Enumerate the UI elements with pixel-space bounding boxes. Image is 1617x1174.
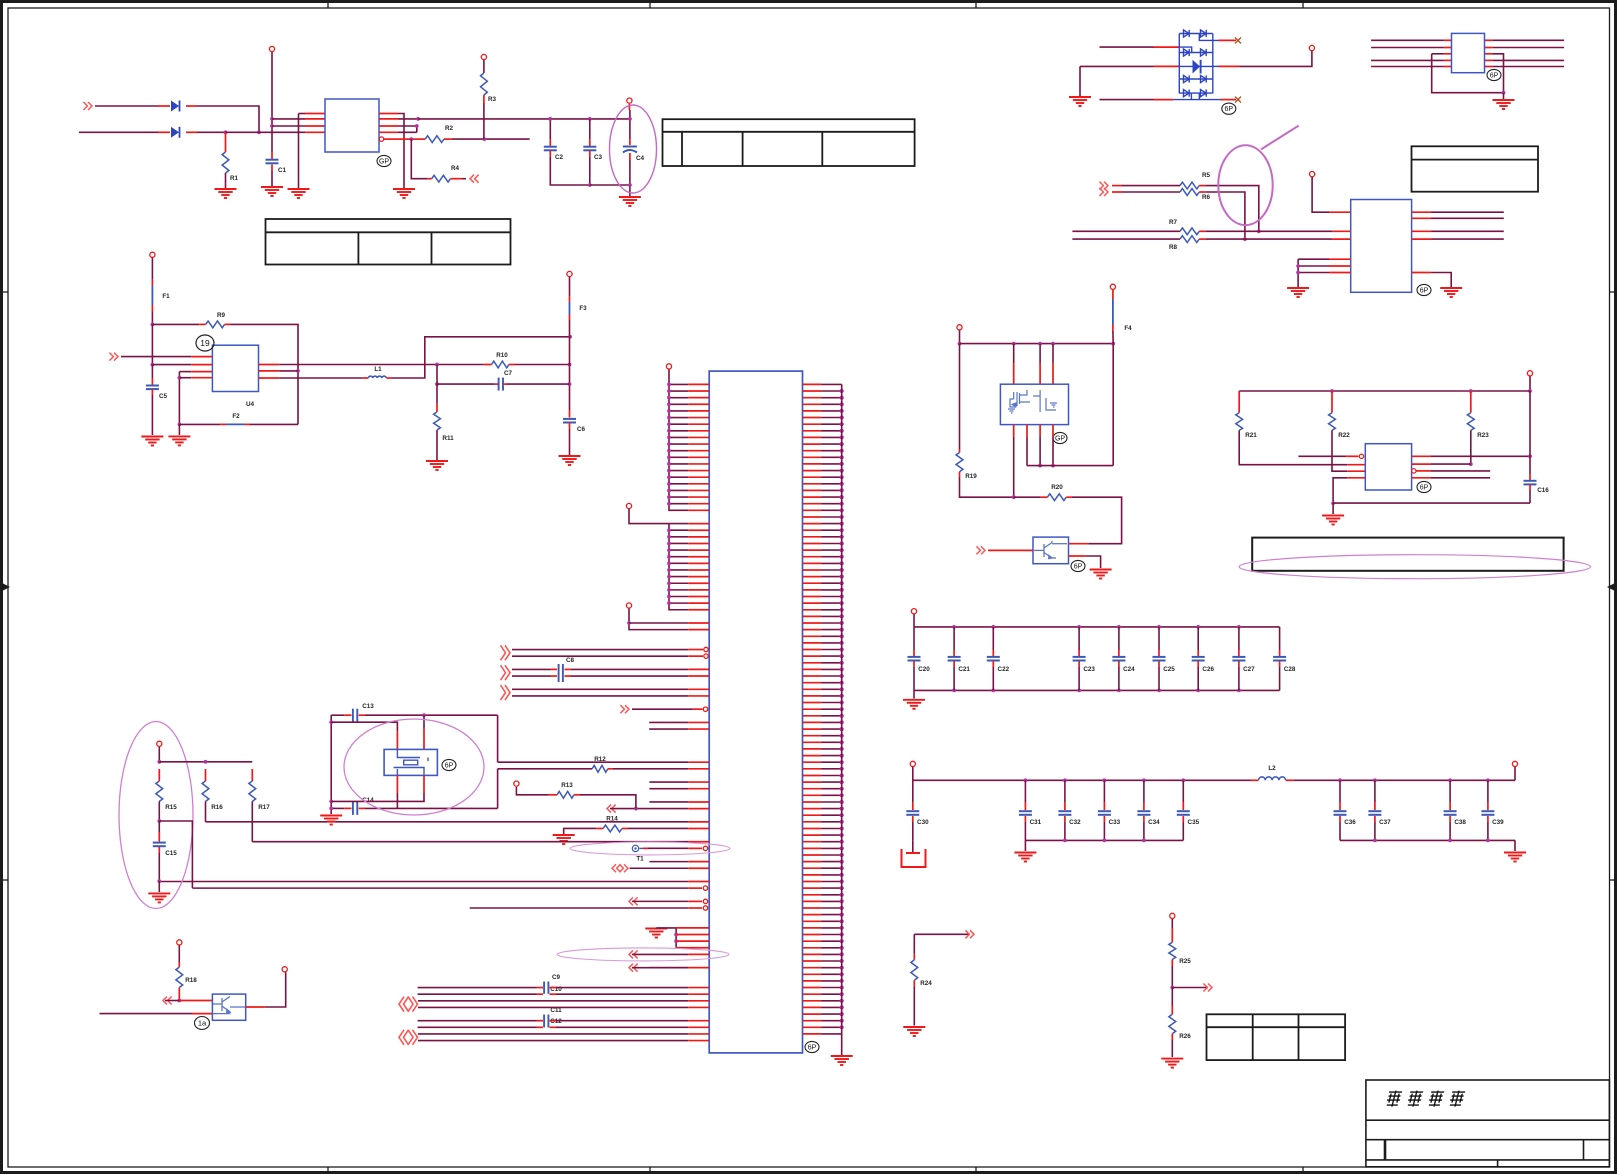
wire U2 left bus 3 [1371, 59, 1444, 61]
wire Q1 base [165, 1000, 179, 1002]
pin stub bank2 cap7 t [1374, 802, 1376, 810]
pin stub R2 lead [413, 138, 425, 140]
wire U4 out3 [279, 377, 363, 379]
junction cluster row84 [674, 939, 678, 943]
wire J1 row97 b [556, 1026, 688, 1028]
highlight ellipse row86 [557, 948, 729, 961]
junction rail R23 [1469, 389, 1473, 393]
pin stub C3 top [589, 139, 591, 147]
table top-middle frame [663, 119, 915, 166]
junction bank1 top 7 [1237, 625, 1241, 629]
wire J1 row78 [632, 900, 688, 902]
wire bank2 cap8 top lead [1449, 780, 1451, 802]
title block frame [1366, 1080, 1610, 1167]
wire J1 row66 long row66 [206, 821, 689, 823]
pin stub J1 left row0 [688, 383, 709, 385]
pin stub C14 right [359, 807, 365, 809]
pin stub bank1 cap5 b [1158, 661, 1160, 667]
table top-right frame [1412, 146, 1539, 191]
capacitor C24 bank1 [1112, 657, 1125, 661]
highlight ellipse left block [119, 722, 193, 909]
wire J1 groupA row11 [669, 456, 688, 458]
pin stub F3 bottom [569, 315, 571, 321]
resistor R16 [202, 781, 209, 801]
wire xtal bottom a [331, 807, 344, 809]
pin stub U1 out1 [379, 113, 398, 115]
wire Y1 top-right lead [423, 715, 425, 728]
wire J1 row75 long row75 [159, 881, 688, 883]
ground U2 [1493, 100, 1515, 109]
wire node to R26 [1171, 988, 1173, 1006]
pin stub U2 left 3 [1444, 59, 1452, 61]
junction bank1 bot 7 [1237, 689, 1241, 693]
ground row67 [553, 835, 575, 844]
bus arrow rows46-47 [501, 685, 511, 700]
junction bank2 top 3 [1103, 778, 1107, 782]
junction groupB row31 [667, 588, 671, 592]
junction bank1 bot 6 [1196, 689, 1200, 693]
wire node G to C15 [158, 821, 160, 832]
svg-text:C37: C37 [1379, 819, 1391, 826]
pin stub R14 left [596, 827, 603, 829]
wire bank2 cap4 bot lead [1143, 822, 1145, 840]
wire R25 to node [1171, 966, 1173, 988]
capacitor C14 series [353, 802, 357, 815]
pin stub Q2 pin3 top [1052, 363, 1054, 384]
wire J1 groupA row16 [669, 489, 688, 491]
port arrow Q1 in [163, 997, 172, 1005]
pin stub C2 top [549, 139, 551, 147]
port arrow row64 [607, 805, 616, 813]
junction R1 top [224, 130, 228, 134]
wire J1 groupB row33 [669, 602, 688, 604]
wire bank1 cap4 bot lead [1118, 667, 1120, 690]
wire bank1 top rail [914, 626, 1280, 628]
pin stub J1 left row1 [688, 390, 709, 392]
pin VREF [481, 54, 486, 59]
pin stub R17 top [251, 769, 253, 781]
wire VDD4 lead [1529, 376, 1531, 391]
pin stub C6 bottom [569, 423, 571, 429]
junction U4 pin4 node [178, 376, 182, 380]
pin stub J1 left row30 [688, 582, 709, 584]
designator stamp Q2 [1053, 432, 1067, 443]
wire R2 to node B [452, 138, 530, 140]
pin stub J1 left row73 [688, 867, 709, 869]
wire xtal bottom b [365, 807, 498, 809]
pin stub U4 out3 [259, 377, 280, 379]
junction bank1 top 1 [952, 625, 956, 629]
table top-left frame [266, 219, 511, 265]
pin stub array in2 [1154, 65, 1180, 67]
open pin circle row79 [703, 906, 707, 910]
wire C15 to node H [158, 853, 160, 881]
svg-text:C35: C35 [1188, 819, 1200, 826]
capacitor C7 series [499, 378, 503, 391]
pin stub U2 left 4 [1444, 66, 1452, 68]
port arrow row49 [620, 705, 629, 713]
pin stub C13 right [359, 714, 365, 716]
wire NET1 to R5 [1122, 185, 1180, 187]
port arrow row89 [629, 964, 638, 972]
junction bank1 bot 3 [1077, 689, 1081, 693]
pin stub J1 left row70 [688, 847, 702, 849]
junction groupB row32 [667, 595, 671, 599]
junction groupA row5 [667, 416, 671, 420]
capacitor C37 bank2 [1368, 811, 1381, 815]
wire U5 out3 [1431, 470, 1490, 472]
pin stub J1 left row60 [688, 781, 709, 783]
wire J1 groupA row7 [669, 430, 688, 432]
open pin circle row70 [703, 846, 707, 850]
wire group-B bus [669, 524, 688, 610]
pin stub R4 right [451, 178, 463, 180]
resistor R3 [481, 73, 488, 95]
bus arrow rows98-99 right [408, 1030, 418, 1045]
ic U4 [212, 345, 258, 391]
svg-text:R11: R11 [442, 435, 454, 442]
junction bank2 botB 1488 [1486, 839, 1490, 843]
svg-text:U4: U4 [246, 401, 255, 408]
wire divider rail [159, 761, 252, 763]
wire J1 groupB row29 [669, 576, 688, 578]
junction rail g3 [1051, 342, 1055, 346]
pin stub C4 bottom [629, 153, 631, 160]
ground below C6 [559, 456, 581, 465]
svg-text:F4: F4 [1124, 325, 1132, 332]
wire bank1 cap2 top lead [992, 627, 994, 650]
pin fuse F4 top [1110, 284, 1115, 289]
svg-text:C16: C16 [1537, 487, 1549, 494]
ground below C4 [619, 197, 641, 206]
junction rail R16 [204, 760, 208, 764]
designator stamp D3 [1222, 103, 1236, 114]
wire F4 to rail [1112, 331, 1114, 344]
pin stub Q2 pin1 top [1013, 363, 1015, 384]
svg-text:C6: C6 [577, 426, 586, 433]
pin stub R19 bottom [959, 472, 961, 477]
wire bank1 cap5 bot lead [1158, 667, 1160, 690]
junction node C [151, 323, 155, 327]
wire J1 groupA row17 [669, 496, 688, 498]
pin Q1 pull-up [177, 940, 182, 945]
pin stub Q2 pin2 bot [1039, 425, 1041, 437]
junction bank2 top 9 [1486, 778, 1490, 782]
wire R16 leg [205, 801, 207, 821]
svg-text:R3: R3 [488, 96, 497, 103]
pin stub U2 left 1 [1444, 39, 1452, 41]
wire J1 short row72 [649, 861, 688, 863]
pin J1 group-A supply [666, 364, 671, 369]
wire U4 out2 [279, 370, 298, 372]
wire bank2 cap3 top lead [1103, 780, 1105, 802]
capacitor C21 bank1 [948, 657, 961, 661]
wire R15 to node G [158, 801, 160, 821]
wire U2 right bus 4 [1492, 66, 1564, 68]
junction bank1 bot 1 [952, 689, 956, 693]
capacitor C28 bank1 [1273, 657, 1286, 661]
pin stub J1 left row25 [688, 549, 709, 551]
wire U3 bl 2 [1298, 265, 1329, 267]
open pin circle row41 [704, 654, 708, 658]
junction bank2 bot 1104 [1103, 839, 1107, 843]
pin stub bank2 cap4 b [1143, 816, 1145, 822]
ground left of U1 [288, 189, 310, 198]
pin stub bank1 cap6 t [1197, 650, 1199, 656]
wire bank1 cap1 top lead [953, 627, 955, 650]
resistor R10 [492, 361, 509, 368]
wire R4 to port [462, 178, 466, 180]
wire U2 right bus 3 [1492, 59, 1564, 61]
pin stub J1 left row43 [688, 668, 709, 670]
wire bank1 cap6 bot lead [1197, 667, 1199, 690]
wire bank2 cap0 top lead [912, 780, 914, 802]
pin stub D1 cathode [186, 105, 197, 107]
regulator U1 [325, 99, 379, 152]
pin stub Q1 emitter [192, 1013, 212, 1015]
junction divider node [1170, 986, 1174, 990]
wire J1 groupA row1 [669, 390, 688, 392]
pin stub bank2 cap8 b [1449, 816, 1451, 822]
svg-text:19: 19 [200, 338, 210, 348]
wire TP1 lead [640, 847, 644, 849]
wire bottom link left [179, 423, 220, 425]
pin stub U4 pin3 [191, 371, 212, 373]
pin stub J1 left row89 [688, 967, 709, 969]
junction xtal left1 [329, 720, 333, 724]
open pin circle row78 [703, 899, 707, 903]
pin stub J1 left row3 [688, 403, 709, 405]
pin stub U3 bl 1 [1329, 258, 1351, 260]
pin stub J1 left row36 [688, 622, 709, 624]
transistor Q3 inner symbol [1034, 541, 1067, 559]
wire J1 groupA row14 [669, 476, 688, 478]
junction node G [157, 819, 161, 823]
wire bank2 rail left [913, 779, 1251, 781]
svg-text:C26: C26 [1202, 666, 1214, 673]
junction U4 pin2 node [151, 363, 155, 367]
capacitor C5 [146, 386, 159, 390]
wire out1 to ground [398, 114, 404, 189]
pin stub R15 top [158, 769, 160, 781]
wire mosfet right leg [1112, 344, 1114, 466]
pin stub bank1 cap1 b [953, 661, 955, 667]
wire C1 to ground [271, 171, 273, 186]
pin stub J1 left row13 [688, 470, 709, 472]
pin stub bank2 cap4 t [1143, 802, 1145, 810]
wire bank2 cap9 top lead [1487, 780, 1489, 802]
junction R5/bus3 [1257, 229, 1261, 233]
port arrow row86 [629, 950, 638, 958]
pin stub D2 cathode [186, 131, 197, 133]
wire J1 row46 [512, 688, 688, 690]
wire bank1 feed [913, 614, 915, 627]
junction xtal left3 [329, 807, 333, 811]
wire bank2 bottom rail B [1340, 839, 1515, 841]
wire bank2 cap1 top lead [1024, 780, 1026, 802]
pin stub bank2 cap5 t [1182, 802, 1184, 810]
pin stub U5 out3 [1416, 470, 1431, 472]
pin stub U5 in2 [1347, 464, 1365, 466]
wire U5 gnd stem [1332, 503, 1334, 514]
junction VCC1/pin2 [270, 117, 274, 121]
pin row64 feed [514, 781, 519, 786]
svg-text:C13: C13 [362, 703, 374, 710]
pin stub bank1 cap0 t [913, 650, 915, 656]
resistor R8 [1180, 236, 1199, 243]
junction groupB row26 [667, 555, 671, 559]
capacitor C16 [1524, 481, 1537, 485]
pin stub TP1 [643, 847, 648, 849]
pin stub C15 bottom [158, 847, 160, 853]
pin stub bank1 cap4 t [1118, 650, 1120, 656]
bus arrow rows40-41 [501, 645, 511, 660]
junction mosfet feed [958, 342, 962, 346]
ground bank1 [903, 700, 925, 709]
svg-text:C31: C31 [1030, 819, 1042, 826]
resistor R24 [911, 960, 918, 981]
wire bank1 cap8 bot lead [1279, 667, 1281, 690]
svg-text:R9: R9 [217, 312, 226, 319]
wire R24 drop [913, 934, 915, 953]
ground U3 right [1440, 288, 1462, 297]
pin stub bank1 cap8 t [1279, 650, 1281, 656]
pin stub J1 left row14 [688, 476, 709, 478]
svg-text:C38: C38 [1454, 819, 1466, 826]
wire J1 row86 [632, 953, 688, 955]
junction groupA row16 [667, 489, 671, 493]
wire bank2 gnd stem A [1024, 840, 1026, 851]
port arrow NET2 [1099, 188, 1108, 196]
inverting pin bubble U1 pin5 [379, 137, 383, 141]
junction groupA row4 [667, 409, 671, 413]
wire J1 row44 b [571, 675, 688, 677]
wire pull-up rail [1239, 390, 1530, 392]
junction groupB row23 [667, 535, 671, 539]
junction bank1 top 4 [1117, 625, 1121, 629]
wire xtal loop left [330, 715, 332, 814]
wire bank1 cap7 bot lead [1238, 667, 1240, 690]
wire Q2 pin1 bottom [1013, 437, 1015, 497]
wire bank2 cap1 bot lead [1024, 822, 1026, 840]
wire J1 row92 b [556, 993, 688, 995]
junction rail g2 [1038, 342, 1042, 346]
junction bank2 top 8 [1448, 778, 1452, 782]
pin stub bank2 cap3 b [1103, 816, 1105, 822]
wire Q1 emitter row [100, 1013, 193, 1015]
junction xtal left2 [329, 800, 333, 804]
wire bus to ground [841, 1034, 843, 1055]
pin stub U3 br [1412, 272, 1432, 274]
wire node C to R9 [152, 323, 199, 325]
wire VCC1 vertical [271, 52, 273, 152]
junction groupA row3 [667, 402, 671, 406]
crystal Y1 [384, 749, 437, 775]
pin stub J1 left row96 [688, 1020, 709, 1022]
pin stub J1 left row21 [688, 523, 709, 525]
wire U2 loop left [1432, 53, 1444, 55]
wire C6 to ground [569, 429, 571, 455]
junction bank1 bot 5 [1157, 689, 1161, 693]
pin stub F2 right [245, 423, 251, 425]
pin stub J1 left row7 [688, 430, 709, 432]
connector outline box bottom-right [1252, 538, 1563, 571]
svg-text:R10: R10 [496, 352, 508, 359]
pin stub J1 left row99 [688, 1040, 709, 1042]
wire R26 to ground [1171, 1040, 1173, 1057]
pin stub R13 right [574, 794, 580, 796]
pin stub U2 right 2 [1485, 47, 1493, 49]
pin stub bank2 cap7 b [1374, 816, 1376, 822]
pin stub J1 left row64 [688, 808, 709, 810]
pin stub row49 [692, 708, 703, 710]
pin stub J1 left row44 [688, 675, 709, 677]
pin stub U2 right 4 [1485, 66, 1493, 68]
resistor R22 [1329, 413, 1336, 431]
pin stub R7 right [1199, 230, 1205, 232]
wire J1 short row61 [649, 788, 688, 790]
inductor L1 [368, 376, 386, 378]
pin stub R25 bottom [1171, 959, 1173, 966]
pin stub U3 in3 [1332, 230, 1351, 232]
resistor R11 [434, 412, 441, 430]
junction right leg mid [296, 369, 300, 373]
junction groupB row33 [667, 601, 671, 605]
wire J1 row76 long [192, 887, 688, 889]
pin VIN mosfet [957, 325, 962, 330]
pin stub R3 bottom [483, 95, 485, 103]
pin U3 vcc [1310, 172, 1315, 177]
wire C3 to bottom rail [589, 157, 591, 185]
pin stub bank2 cap9 t [1487, 802, 1489, 810]
pin stub J1 left row91 [688, 987, 709, 989]
wire array input2 [1080, 65, 1154, 67]
wire U3 gnd bus [1297, 259, 1299, 287]
junction groupA row12 [667, 462, 671, 466]
pin stub R10 left [484, 364, 492, 366]
wire Q2 pin3 drop [1052, 344, 1054, 363]
junction bank1 top 5 [1157, 625, 1161, 629]
svg-text:GP: GP [379, 158, 389, 165]
pin stub J1 left row47 [688, 695, 709, 697]
wire output rail [418, 118, 630, 120]
wire bank2 bottom rail A [1025, 839, 1183, 841]
highlight ellipse row70 [570, 842, 730, 855]
pin stub bank2 cap6 t [1339, 802, 1341, 810]
pin stub bank1 cap3 b [1078, 661, 1080, 667]
wire gnd cluster bus [675, 928, 677, 948]
connector J1 right bus junctions [840, 389, 844, 1030]
wire bank1 cap7 top lead [1238, 627, 1240, 650]
pin stub U5 in3 [1347, 470, 1365, 472]
pin stub C2 bottom [549, 151, 551, 158]
bus arrow rows93-94 left [399, 997, 409, 1012]
wire J1 row40 [512, 649, 688, 651]
pin stub bank2 cap0 t [912, 802, 914, 810]
pin stub bank1 cap2 b [992, 661, 994, 667]
pin stub U1 out3 [379, 125, 398, 127]
wire node to U1 pin4 [226, 131, 306, 133]
wire U5 out2 [1431, 463, 1471, 465]
pin bank2 right [1512, 761, 1517, 766]
junction bank2 botB 1375 [1373, 839, 1377, 843]
wire J1 short row63 [649, 801, 688, 803]
pin stub array out-bottom [1220, 99, 1236, 101]
bus arrow rows43-44 [501, 665, 511, 680]
svg-text:R18: R18 [185, 977, 197, 984]
resistor R20 [1047, 494, 1066, 501]
fuse F4 [1112, 299, 1114, 325]
